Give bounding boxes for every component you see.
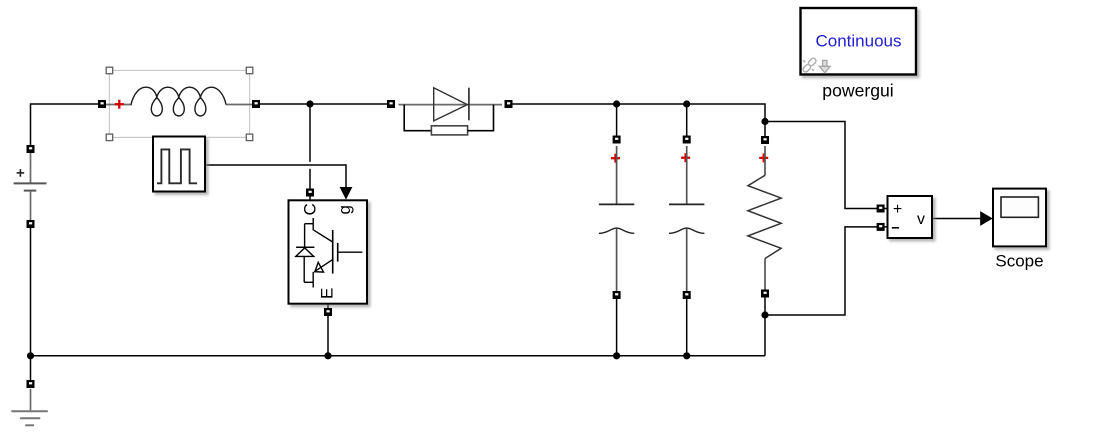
wire: diode cathode along top bus to load corner	[507, 104, 765, 122]
ground symbol	[11, 389, 48, 425]
port: inductor left	[98, 100, 106, 108]
svg-text:v: v	[917, 211, 925, 228]
capacitor C1	[599, 146, 634, 291]
port: C2 top	[683, 136, 691, 144]
svg-text:E: E	[318, 288, 337, 299]
voltage measurement block VM	[888, 196, 933, 238]
svg-text:powergui: powergui	[822, 80, 893, 100]
svg-text:Continuous: Continuous	[815, 32, 901, 51]
port: IGBT emitter	[324, 308, 332, 316]
svg-text:Scope: Scope	[995, 251, 1043, 270]
scope label	[995, 251, 1043, 270]
node A junction: inductor/diode/IGBT collector	[306, 100, 313, 107]
powergui broken-link icon	[802, 57, 817, 73]
wire: capacitor C1 bottom to ground bus	[616, 298, 618, 356]
node C junction: top bus to capacitor C2	[683, 100, 690, 107]
DC voltage source V1	[14, 153, 47, 220]
wire: source plus up to inductor input	[31, 104, 101, 146]
svg-text:+: +	[893, 201, 902, 218]
node B junction: top bus to capacitor C1	[613, 100, 620, 107]
powergui block	[801, 8, 917, 75]
wire: top bus down to capacitor C1	[616, 104, 618, 137]
port: load resistor top	[761, 136, 769, 144]
port: inductor right	[252, 100, 260, 108]
node H junction: ground bus at C1	[613, 352, 620, 359]
powergui label	[822, 80, 893, 100]
wire: capacitor C2 bottom to ground bus	[686, 298, 688, 356]
wire: inductor output to diode anode (top bus left)	[258, 103, 389, 105]
load resistor R1	[748, 146, 781, 290]
svg-text:g: g	[335, 205, 354, 214]
port: diode anode	[387, 100, 395, 108]
port: battery minus	[27, 220, 35, 228]
capacitor C2	[669, 146, 704, 291]
wire: voltage measurement output to scope	[932, 211, 993, 226]
port: C1 bottom	[613, 291, 621, 299]
wire: IGBT emitter down to ground bus	[327, 304, 329, 356]
port: battery plus	[27, 145, 35, 153]
node I junction: ground bus at C2	[683, 352, 690, 359]
port: ground	[27, 380, 35, 388]
wire: battery minus down to ground	[30, 227, 32, 381]
node E junction: load bottom tap	[761, 311, 768, 318]
wire: pulse generator output to IGBT gate	[205, 165, 352, 200]
port: C1 top	[613, 136, 621, 144]
diode D1 with snubber	[399, 88, 503, 135]
wire: load top tap to voltage measurement plus input	[765, 122, 888, 209]
node G junction: ground bus at IGBT emitter	[324, 352, 331, 359]
svg-text:C: C	[301, 203, 320, 215]
inductor L1 (selected)	[105, 67, 253, 140]
wire: top bus down to capacitor C2	[686, 104, 688, 137]
powergui down-arrow icon	[819, 60, 830, 72]
scope block	[993, 189, 1046, 247]
port: voltage measurement plus	[877, 205, 885, 213]
pulse generator block	[153, 137, 205, 192]
IGBT block U1	[289, 200, 368, 303]
port: load resistor bottom	[761, 290, 769, 298]
port: C2 bottom	[683, 291, 691, 299]
port: diode cathode	[505, 100, 513, 108]
node D junction: load top tap	[761, 118, 768, 125]
node F junction: ground bus at battery column	[27, 352, 34, 359]
port: voltage measurement minus	[877, 223, 885, 231]
wire: load resistor bottom to bus corner	[764, 296, 766, 356]
wire: bottom ground bus	[31, 355, 766, 357]
wire: load top tap down to load resistor	[764, 122, 766, 138]
wire: node A down to IGBT collector (with crossing gap)	[309, 104, 311, 201]
wire: load bottom tap to voltage measurement minus input	[765, 227, 888, 315]
port: IGBT collector	[306, 189, 314, 197]
